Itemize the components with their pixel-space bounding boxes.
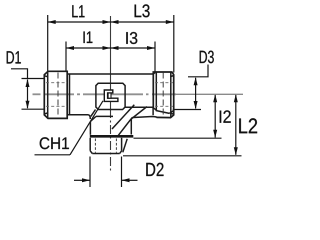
label I1 [84,32,93,44]
I1 dimension line [66,47,111,49]
hidden thread lines [46,73,173,153]
right nut hidden thread [162,73,164,118]
hex top edge [96,115,113,117]
L1 dimension line [48,21,111,23]
I2 down arrow [213,130,217,138]
stud right rear diagonal [123,139,127,153]
I3 left arrow [111,46,119,50]
stud bottom edge [92,153,119,155]
right nut bottom-left chamfer [156,111,170,114]
L3 left arrow [111,20,119,24]
tube top edge [67,73,153,75]
stud thread right dashed [115,139,117,153]
label CH1 [40,137,69,149]
label I3 [126,32,137,44]
left nut chamfer arc top [45,76,49,77]
cone facet diagonal 1 [112,105,134,129]
right nut lower left edge [152,108,154,115]
L1 left arrow [48,20,56,24]
D1 up arrow [26,79,30,87]
left nut chamfer face [47,71,49,118]
D1 bottom extension [22,108,45,110]
stud bottom-right chamfer [120,151,122,154]
dimension labels [7,4,231,149]
label D2 [146,163,163,176]
D1 down arrow [26,101,30,109]
D2 left arrow [82,178,90,182]
L1 extension line [47,15,49,71]
left nut chamfer arc bottom [45,113,49,114]
hex bottom thick edge [90,135,134,138]
L2 bottom extension [123,155,242,157]
right nut chamfer face [170,72,172,118]
D2 right extension [121,157,123,188]
hex left edge [89,122,91,135]
stud right edge [121,138,123,151]
label L2 [239,118,257,133]
hex top-left chamfer [90,116,96,121]
D1 top extension [22,78,45,80]
label L1 [72,5,84,17]
CH1 leader diagonal [70,101,103,155]
I2 bottom extension [134,137,222,139]
L2 arrow shaft [235,95,237,155]
right nut bore bottom dash [155,105,173,107]
right nut chamfer arc top [170,76,173,77]
tube bottom edge right [125,107,156,110]
right nut outline [153,72,173,118]
right nut bore top dash [155,82,173,84]
horizontal centerline (axis) [33,93,177,95]
L2 down arrow [234,147,238,155]
logo mark on body [104,90,118,101]
I1 left arrow [66,46,74,50]
L3 dimension line [111,21,174,23]
left nut outline [44,71,67,118]
stud bottom-left chamfer [90,151,92,154]
tube-nut top chamfer [153,73,156,75]
left nut bore top dash [46,82,67,84]
axis extension line for I2/L2 [176,93,243,95]
left nut hidden thread [57,73,59,118]
right nut bottom-right inner chamfer [169,111,173,114]
label D1 [7,51,21,63]
arrowheads [26,20,238,182]
logo inner bar [108,93,111,98]
I2 up arrow [213,94,217,102]
cone left diagonal [91,110,96,117]
I1 extension line [65,42,67,72]
D3 arrow shaft [195,78,197,109]
right nut chamfer arc bottom [170,113,173,114]
L3 extension line [173,15,175,73]
stud thread left dashed [94,139,96,153]
L1 right arrow [103,20,111,24]
right nut inner face [155,73,157,112]
cone facet diagonal 2 [118,107,147,137]
D3 up arrow [194,77,198,85]
CH1 underline [35,154,71,156]
D1 arrow shaft [27,80,29,109]
label I2 [220,110,231,122]
label L3 [135,4,150,17]
D3 down arrow [194,101,198,109]
I3 dimension line [111,47,156,49]
D2 right arrow [122,178,130,182]
L2 up arrow [234,94,238,102]
L3 right arrow [166,20,174,24]
I3 right arrow [147,46,155,50]
tube bottom edge left [68,115,90,119]
D2 dimension line right [122,179,138,181]
I2 arrow shaft [214,95,216,138]
I1 right arrow [103,46,111,50]
stud left edge [89,138,91,151]
D3 leader [188,65,208,77]
left nut step [69,74,71,115]
lower shoulder edge [131,117,157,135]
D1 leader [11,69,28,79]
left nut bore bottom dash [46,105,67,107]
center block [96,83,125,109]
vertical centerline (branch axis) upper [110,16,112,109]
D3 bottom extension [173,109,201,111]
vertical centerline (branch axis) lower [110,109,112,173]
D2 dimension line left [74,179,90,181]
label D3 [200,51,214,64]
I3 extension line [154,42,156,72]
D2 left extension [89,157,91,188]
